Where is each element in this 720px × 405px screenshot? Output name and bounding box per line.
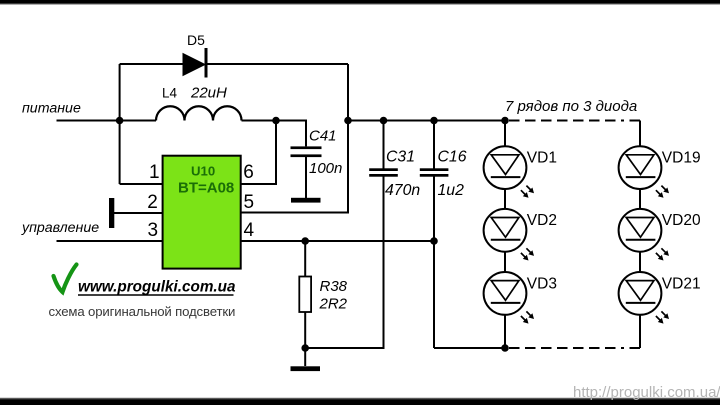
svg-text:5: 5 xyxy=(244,192,255,213)
ground (C41) xyxy=(291,198,321,203)
svg-text:6: 6 xyxy=(243,162,254,183)
LED VD2 xyxy=(484,209,557,261)
junction: rail / VD1 column xyxy=(501,117,509,125)
svg-text:http://progulki.com.ua/: http://progulki.com.ua/ xyxy=(573,384,720,401)
wire: R38 bottom lead to ground xyxy=(304,312,306,366)
svg-text:www.progulki.com.ua: www.progulki.com.ua xyxy=(78,279,236,296)
junction: rail / pin6 riser xyxy=(272,117,280,125)
wire: rail from D5 column to VD1 column xyxy=(348,120,505,122)
svg-text:C31: C31 xyxy=(386,149,415,166)
LED VD19 xyxy=(619,146,701,198)
wire: LED return rail solid segment xyxy=(434,347,505,349)
LED VD3 xyxy=(484,272,557,324)
svg-text:D5: D5 xyxy=(187,32,205,48)
wire: pin 1 to IC xyxy=(120,183,163,185)
wire: pin 6 riser to rail xyxy=(241,121,276,185)
wire: dashed rail to VD19 column xyxy=(509,120,640,122)
svg-text:VD19: VD19 xyxy=(662,150,701,167)
diode D5 xyxy=(183,32,208,78)
wire: pin 4 net xyxy=(241,240,434,242)
svg-text:VD20: VD20 xyxy=(662,212,701,229)
wire: C31 upper lead xyxy=(383,121,385,169)
svg-text:4: 4 xyxy=(244,220,255,241)
junction: R38 bottom / C31 xyxy=(301,344,309,352)
resistor R38 xyxy=(299,277,347,313)
junction: rail / C31 xyxy=(380,117,388,125)
svg-text:2R2: 2R2 xyxy=(319,296,348,313)
wire: VD19-VD21 string column xyxy=(639,121,641,349)
LED VD20 xyxy=(619,209,701,261)
svg-text:управление: управление xyxy=(21,220,99,236)
svg-text:VD2: VD2 xyxy=(527,212,557,229)
junction: rail / D5 column xyxy=(344,117,352,125)
wire: D5 right column down to pin5 xyxy=(241,64,348,213)
inductor L4 xyxy=(156,106,242,120)
wire: C16 lower lead down to LED return rail xyxy=(433,177,435,349)
junction: LED return rail / VD3 column xyxy=(501,344,509,352)
wire: питание rail left segment xyxy=(57,120,157,122)
wire: C41 lower lead xyxy=(305,157,307,198)
watermark www.progulki.com.ua xyxy=(78,279,236,296)
capacitor C31 xyxy=(369,149,420,200)
wire: управление wire to pin 3 xyxy=(57,240,163,242)
wire: D5 top loop xyxy=(120,63,348,65)
LED VD21 xyxy=(619,272,701,324)
svg-text:470n: 470n xyxy=(385,182,420,199)
svg-text:BT=A08: BT=A08 xyxy=(178,180,234,197)
wire: R38 top lead xyxy=(304,241,306,277)
svg-text:1: 1 xyxy=(149,162,160,183)
wire: C31 lower lead to ground net xyxy=(305,177,383,349)
IC U10 xyxy=(163,156,241,269)
terminal bar (управление input) xyxy=(109,198,114,228)
svg-text:22uH: 22uH xyxy=(190,85,227,102)
wire: VD1-VD3 string column xyxy=(504,121,506,349)
junction: pin4 / R38 top xyxy=(301,237,309,245)
svg-text:питание: питание xyxy=(22,101,81,117)
svg-text:схема оригинальной подсветки: схема оригинальной подсветки xyxy=(49,304,236,319)
svg-text:L4: L4 xyxy=(162,86,178,101)
wire: LED return rail dashed segment xyxy=(509,347,640,349)
svg-text:100n: 100n xyxy=(309,160,342,177)
wire: rail from L4 to C41 corner xyxy=(242,121,307,147)
svg-text:C16: C16 xyxy=(438,149,467,166)
LED VD1 xyxy=(484,146,557,198)
capacitor C41 xyxy=(291,128,343,178)
capacitor C16 xyxy=(420,149,467,200)
svg-text:VD21: VD21 xyxy=(662,275,701,292)
svg-text:7 рядов по 3 диода: 7 рядов по 3 диода xyxy=(505,98,637,115)
junction: pin4 / C16 xyxy=(430,237,438,245)
ground (R38) xyxy=(291,366,321,371)
svg-text:2: 2 xyxy=(147,192,158,213)
wire: pin 2 to terminal bar xyxy=(114,212,163,214)
wire: D5 left riser (rail to pin1 corner) xyxy=(119,64,121,184)
wire: C16 upper lead xyxy=(433,121,435,169)
svg-text:3: 3 xyxy=(148,220,159,241)
junction: rail / D5 left riser xyxy=(116,117,124,125)
svg-text:C41: C41 xyxy=(309,128,337,145)
svg-text:VD1: VD1 xyxy=(527,150,557,167)
watermark checkmark xyxy=(54,265,77,293)
junction: rail / C16 xyxy=(430,117,438,125)
svg-text:U10: U10 xyxy=(191,163,215,178)
svg-text:VD3: VD3 xyxy=(527,275,557,292)
svg-text:1u2: 1u2 xyxy=(438,182,465,199)
svg-text:R38: R38 xyxy=(320,278,348,295)
